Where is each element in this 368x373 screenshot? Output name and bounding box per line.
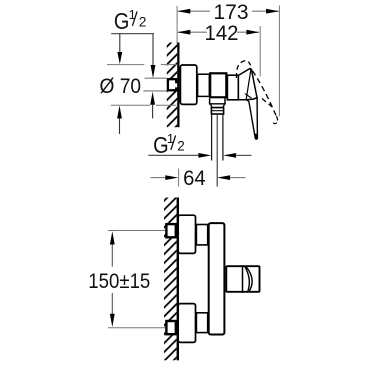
- wall face bar (side view): [177, 43, 179, 128]
- connector top (front view): [196, 225, 207, 245]
- solid lever blade: [246, 98, 257, 139]
- extension line left (173/142): [176, 6, 178, 44]
- dashed handle upper line: [253, 71, 277, 116]
- escutcheon bottom (front view): [178, 304, 195, 343]
- hose right edge: [222, 114, 224, 161]
- handle crescent right arc: [246, 267, 252, 291]
- escutcheon top (front view): [178, 215, 195, 253]
- svg-text:G: G: [114, 8, 129, 34]
- neck (side view): [198, 74, 210, 96]
- hose centerline / 64 extension: [216, 114, 218, 187]
- arrow up to union bottom: [150, 92, 155, 105]
- dashed handle hook: [273, 116, 278, 123]
- 150 dim top extension line: [108, 230, 166, 232]
- handle stem divider: [242, 265, 244, 293]
- hose outlet piece: [210, 98, 225, 104]
- arrow up to O70 bottom: [117, 106, 122, 119]
- extension line right 173: [278, 6, 280, 117]
- svg-text:64: 64: [183, 167, 206, 190]
- wall (front view) hatching: [164, 198, 177, 361]
- arrow to union top (G1/2): [152, 34, 154, 66]
- union bottom (front view): [166, 321, 175, 334]
- handle (front view): [226, 266, 259, 292]
- leader G1/2 hose with arrow right: [148, 154, 198, 156]
- O70 top extension line: [107, 64, 144, 66]
- rear section (side view): [227, 75, 238, 100]
- union notch: [174, 83, 178, 87]
- body (front view): [209, 223, 225, 334]
- extension line right 142: [259, 26, 261, 76]
- dashed handle arc: [236, 61, 250, 78]
- svg-text:Ø 70: Ø 70: [100, 75, 142, 98]
- handle cone: [238, 69, 257, 100]
- union top (front view): [166, 224, 175, 237]
- hose nut: [211, 108, 223, 114]
- leader underline G1/2 top: [111, 33, 154, 35]
- wall (side view) hatching: [167, 43, 177, 128]
- hose left edge: [211, 114, 213, 161]
- lever tip: [255, 134, 258, 140]
- svg-text:173: 173: [214, 1, 249, 24]
- dimension 142: [178, 31, 259, 33]
- hose nut midline: [211, 110, 223, 112]
- union bottom line: [143, 90, 166, 92]
- wall face bar (front view): [177, 198, 179, 361]
- hose taper: [211, 105, 225, 108]
- svg-text:2: 2: [177, 139, 185, 154]
- arrow to escutcheon top (O70 upper): [119, 34, 121, 53]
- escutcheon flange (side view): [180, 65, 196, 104]
- 150 dim line + arrows: [111, 244, 113, 267]
- O70 bottom extension line: [111, 104, 150, 106]
- dimension 64: [151, 177, 167, 179]
- union fitting behind wall (side view): [168, 79, 176, 90]
- handle crescent left arc: [245, 267, 249, 291]
- 150 dim bottom extension line: [108, 327, 166, 329]
- svg-text:150±15: 150±15: [88, 269, 150, 293]
- arrow left at hose right edge: [223, 153, 236, 158]
- svg-text:2: 2: [139, 15, 147, 30]
- 64 left extension: [178, 169, 180, 187]
- union top line: [145, 77, 167, 79]
- connector bottom (front view): [196, 313, 207, 333]
- cartridge body (side view): [210, 73, 226, 97]
- cone lower diagonal: [245, 94, 252, 99]
- dashed handle lower line: [262, 99, 273, 108]
- svg-text:142: 142: [205, 22, 239, 45]
- cone fold line: [246, 69, 251, 99]
- dimension 173: [178, 10, 279, 12]
